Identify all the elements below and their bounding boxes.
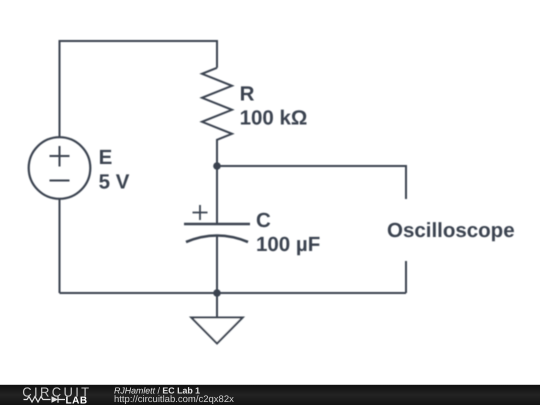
svg-text:Oscilloscope: Oscilloscope	[387, 219, 515, 242]
svg-text:5 V: 5 V	[99, 170, 130, 193]
node junction dot upper	[213, 162, 221, 170]
svg-text:R: R	[240, 82, 255, 105]
svg-text:C: C	[256, 209, 271, 232]
wire capacitor to bottom	[216, 236, 218, 293]
capacitor C	[184, 205, 250, 242]
wire top horizontal	[60, 41, 218, 138]
footer bar	[0, 385, 540, 405]
wire bottom horizontal	[60, 292, 407, 294]
wire junction to oscilloscope top	[217, 166, 406, 199]
wire left vertical lower	[59, 199, 61, 294]
wire oscilloscope bottom	[405, 261, 407, 293]
svg-text:100 µF: 100 µF	[256, 233, 320, 256]
node junction dot lower	[213, 289, 221, 297]
voltage source E	[29, 137, 91, 199]
svg-text:http://circuitlab.com/c2qx82x: http://circuitlab.com/c2qx82x	[114, 394, 234, 405]
svg-text:LAB: LAB	[66, 396, 88, 405]
resistor R	[202, 68, 232, 166]
svg-text:E: E	[99, 146, 113, 169]
wire junction down to capacitor	[216, 166, 218, 223]
ground	[191, 293, 242, 344]
svg-text:100 kΩ: 100 kΩ	[240, 106, 308, 129]
logo wire with resistor and diode	[24, 396, 66, 402]
